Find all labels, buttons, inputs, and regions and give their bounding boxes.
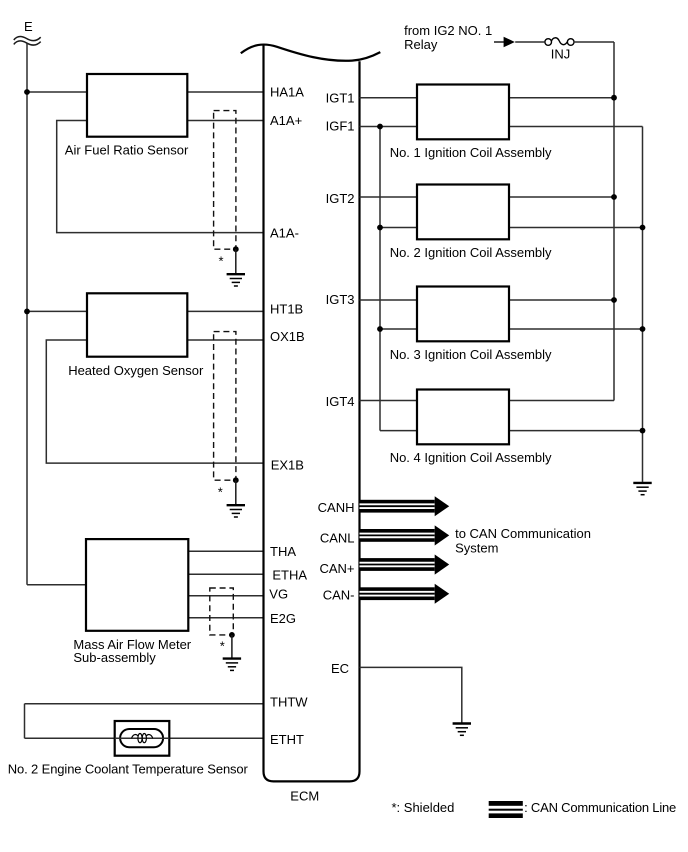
wire sensor to A1A- loop	[57, 121, 264, 233]
ground EC	[453, 724, 471, 736]
wire IGF common rail vertical	[379, 127, 381, 431]
node junction IGT1 rail	[611, 95, 617, 101]
svg-text:HT1B: HT1B	[270, 302, 303, 317]
wire IGF1	[360, 126, 643, 128]
svg-text:*: Shielded: *: Shielded	[392, 800, 455, 815]
CAN arrow CAN+	[360, 555, 450, 575]
wire shield S2 to ground	[235, 480, 237, 504]
node junction coil2 IGF left	[377, 225, 383, 231]
wire coil ground rail vertical	[642, 127, 644, 482]
svg-text:IGF1: IGF1	[326, 118, 355, 133]
svg-text:CAN-: CAN-	[323, 588, 355, 603]
svg-text:No. 2 Engine Coolant Temperatu: No. 2 Engine Coolant Temperature Sensor	[8, 761, 249, 776]
wire THA	[188, 550, 264, 552]
ECM body outline	[264, 45, 360, 782]
svg-text:OX1B: OX1B	[270, 329, 305, 344]
svg-text:Heated Oxygen Sensor: Heated Oxygen Sensor	[68, 363, 204, 378]
wire sensor to EX1B loop	[46, 340, 263, 463]
wire coil3 IGF	[380, 328, 643, 330]
sensor No. 2 Engine Coolant Temperature Sensor box	[115, 721, 170, 756]
node junction E/HT1B	[24, 309, 30, 315]
svg-text:Sub-assembly: Sub-assembly	[73, 650, 156, 665]
CAN arrow CAN-	[360, 584, 450, 604]
ground shield S1	[227, 274, 245, 286]
shield S1 dashed box	[214, 111, 236, 250]
wire ETHT through sensor	[115, 737, 170, 739]
svg-text:A1A+: A1A+	[270, 113, 302, 128]
svg-text:THTW: THTW	[270, 695, 308, 710]
svg-text:Air Fuel Ratio Sensor: Air Fuel Ratio Sensor	[65, 143, 189, 158]
svg-text:from IG2 NO. 1: from IG2 NO. 1	[404, 23, 492, 38]
ground shield S2	[227, 505, 245, 517]
node junction IGT2 rail	[611, 194, 617, 200]
svg-text:CANL: CANL	[320, 530, 355, 545]
legend CAN line symbol	[489, 801, 523, 818]
svg-text:*: *	[218, 485, 223, 500]
svg-text:A1A-: A1A-	[270, 225, 299, 240]
svg-text:EX1B: EX1B	[271, 458, 304, 473]
node E break symbol	[14, 36, 41, 45]
wire HT1B	[27, 310, 264, 312]
svg-text:THA: THA	[270, 544, 296, 559]
shield S3 dashed box	[210, 588, 234, 635]
wire E ground rail vertical	[26, 44, 28, 585]
svg-text:*: *	[219, 254, 224, 269]
svg-text:No. 2 Ignition Coil Assembly: No. 2 Ignition Coil Assembly	[390, 245, 552, 260]
shield S2 dashed box	[214, 332, 236, 481]
svg-text:: CAN Communication Line: : CAN Communication Line	[524, 800, 676, 815]
node junction coil3 IGF right	[640, 326, 646, 332]
wire THTW	[25, 703, 264, 705]
component box No. 2 Ignition Coil Assembly	[417, 185, 509, 240]
node shield S1 drain junction	[233, 246, 239, 252]
wire shield S3 to ground	[231, 635, 233, 658]
svg-text:Relay: Relay	[404, 37, 438, 52]
svg-text:VG: VG	[269, 587, 288, 602]
component box No. 4 Ignition Coil Assembly	[417, 390, 509, 445]
svg-text:IGT1: IGT1	[326, 91, 355, 106]
svg-text:EC: EC	[331, 661, 349, 676]
arrow relay feed	[504, 37, 515, 48]
wire OX1B	[187, 339, 264, 341]
component box No. 3 Ignition Coil Assembly	[417, 287, 509, 342]
svg-text:System: System	[455, 541, 498, 556]
wire ETHA	[188, 573, 264, 575]
node junction IGT3 rail	[611, 297, 617, 303]
wire IGT supply rail vertical	[613, 42, 615, 401]
svg-text:to CAN Communication: to CAN Communication	[455, 526, 591, 541]
ground shield S3	[223, 659, 241, 671]
svg-text:IGT4: IGT4	[326, 394, 355, 409]
CAN arrow CANL	[360, 525, 450, 545]
wire ETHT	[25, 737, 264, 739]
node shield S2 drain junction	[233, 477, 239, 483]
wire coil4 IGF	[380, 430, 643, 432]
CAN arrow CANH	[360, 496, 450, 516]
ground coil rail	[633, 483, 651, 495]
wire VG	[188, 595, 264, 597]
wire relay feed tail	[494, 41, 504, 43]
wire shield S1 to ground	[235, 249, 237, 273]
svg-text:INJ: INJ	[551, 47, 571, 62]
svg-text:CANH: CANH	[318, 500, 355, 515]
wire coil2 IGF	[380, 227, 643, 229]
svg-text:IGT3: IGT3	[326, 292, 355, 307]
node junction coil4 ground rail	[640, 428, 646, 434]
wire A1A+	[187, 120, 264, 122]
fuse INJ	[545, 38, 574, 46]
wire fuse to IGT rail	[574, 41, 614, 43]
wire HA1A	[27, 91, 264, 93]
svg-text:E2G: E2G	[270, 611, 296, 626]
sensor box Heated Oxygen Sensor	[87, 293, 187, 356]
wire IGT1	[360, 97, 615, 99]
node junction E/HA1A	[24, 89, 30, 95]
svg-text:*: *	[220, 639, 225, 654]
sensor box Mass Air Flow Meter	[86, 539, 188, 631]
wire IGT3	[360, 299, 615, 301]
thermistor element pill	[120, 729, 163, 747]
svg-text:No. 1 Ignition Coil Assembly: No. 1 Ignition Coil Assembly	[390, 145, 552, 160]
sensor box Air Fuel Ratio Sensor	[87, 74, 187, 137]
ECM top break wave	[241, 45, 380, 61]
wire arrow to fuse	[515, 41, 544, 43]
svg-text:ETHT: ETHT	[270, 732, 304, 747]
svg-text:IGT2: IGT2	[326, 191, 355, 206]
wire E2G	[188, 617, 264, 619]
wire E rail to Mass Air Flow Meter	[27, 584, 87, 586]
wire EC	[360, 667, 462, 722]
thermistor coil	[132, 734, 153, 743]
svg-text:No. 3 Ignition Coil Assembly: No. 3 Ignition Coil Assembly	[390, 347, 552, 362]
svg-text:ETHA: ETHA	[272, 568, 307, 583]
wire THTW/ETHT loop vertical	[24, 704, 26, 739]
node shield S3 drain junction	[229, 632, 235, 638]
node junction IGF1 rail	[377, 124, 383, 130]
node junction coil2 IGF right	[640, 225, 646, 231]
svg-text:No. 4 Ignition Coil Assembly: No. 4 Ignition Coil Assembly	[390, 450, 552, 465]
wire IGT4	[360, 400, 615, 402]
wire IGT2	[360, 196, 615, 198]
component box No. 1 Ignition Coil Assembly	[417, 85, 509, 140]
node junction coil3 IGF left	[377, 326, 383, 332]
svg-text:E: E	[24, 19, 33, 34]
svg-text:HA1A: HA1A	[270, 85, 304, 100]
svg-text:CAN+: CAN+	[319, 561, 354, 576]
svg-text:ECM: ECM	[290, 788, 319, 803]
